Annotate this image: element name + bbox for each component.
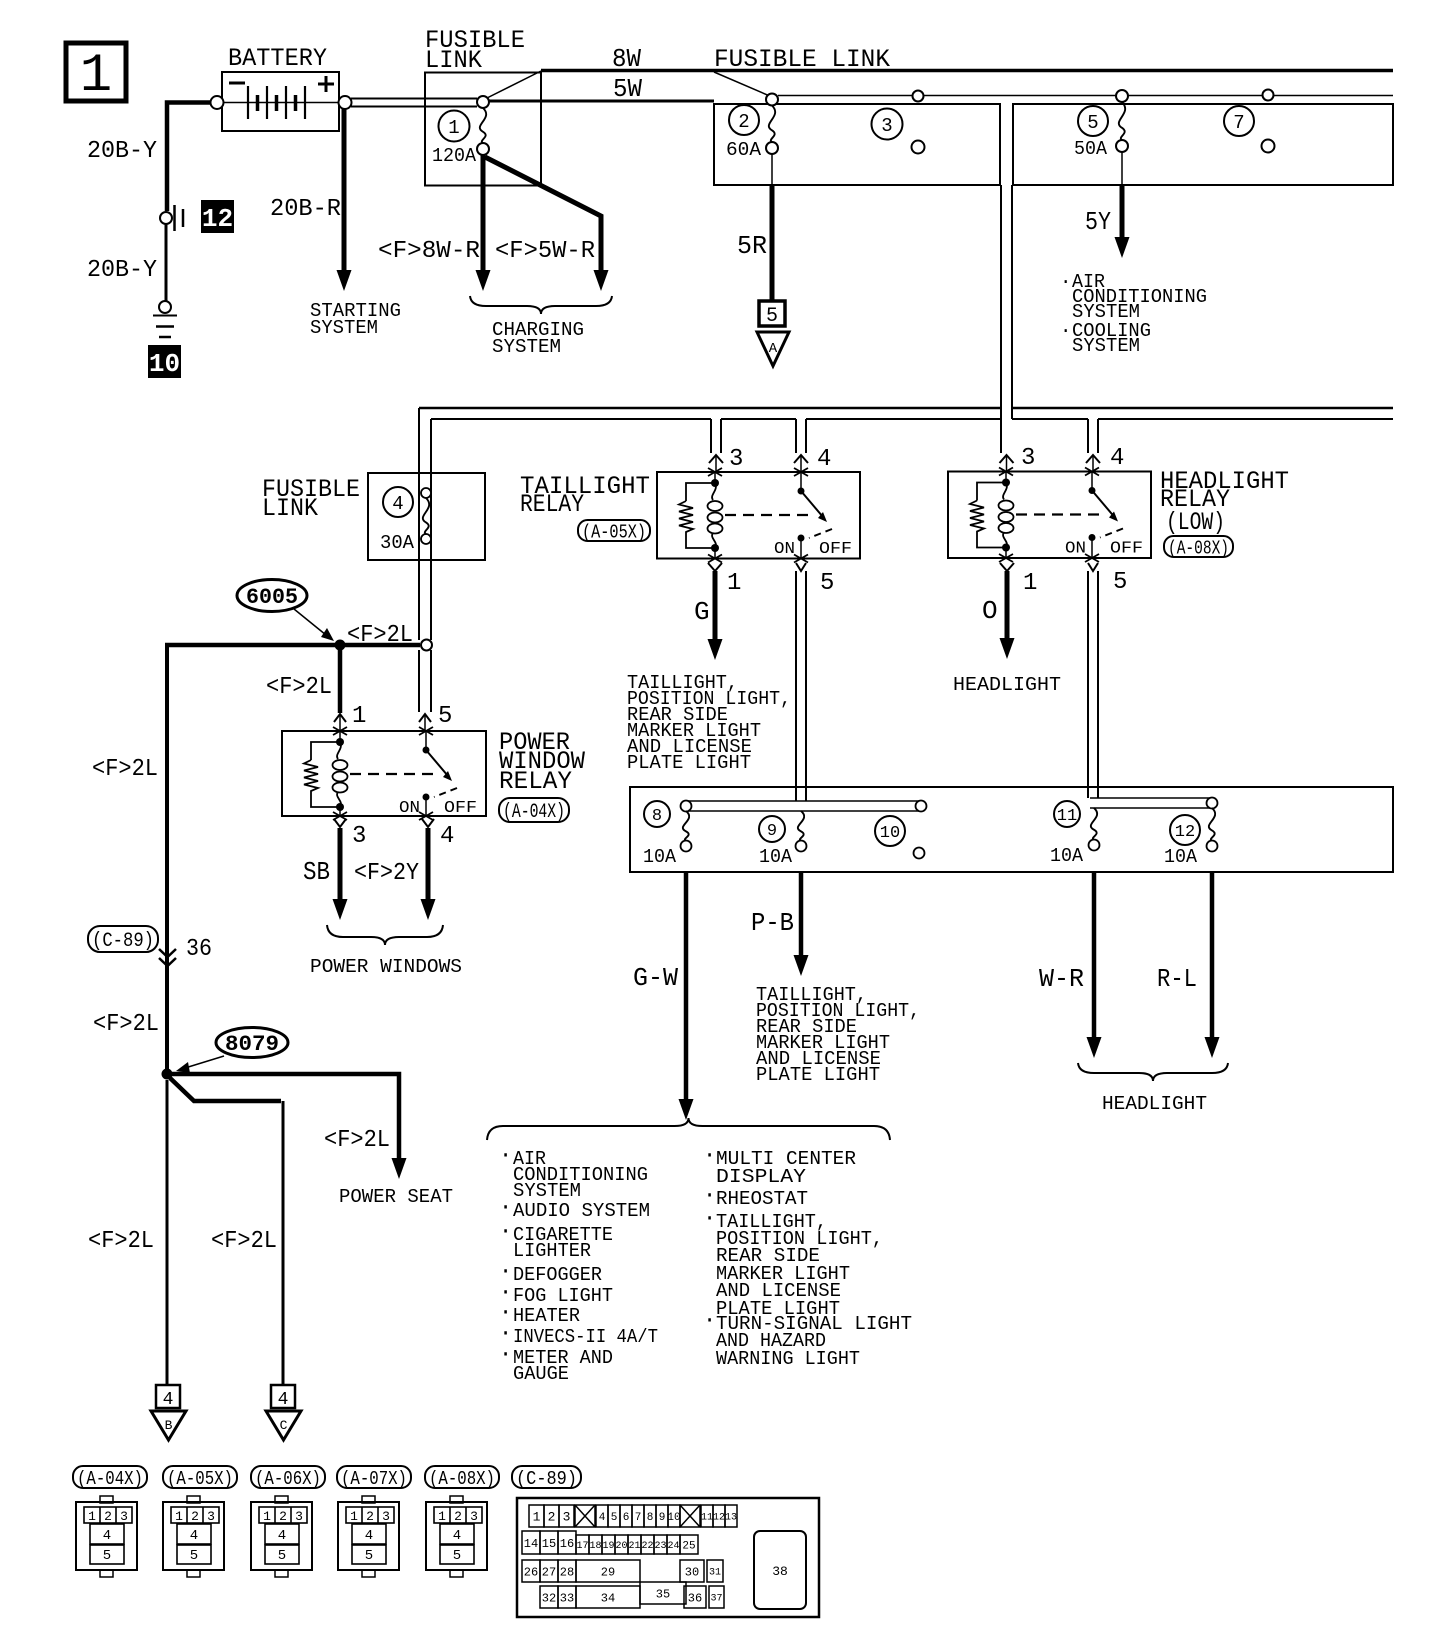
svg-text:6005: 6005 [246, 585, 298, 610]
svg-text:3: 3 [382, 1509, 390, 1524]
svg-text:1: 1 [448, 117, 459, 139]
svg-text:·: · [703, 1206, 716, 1231]
svg-text:<F>2L: <F>2L [211, 1228, 277, 1255]
svg-text:12: 12 [1175, 823, 1195, 842]
svg-text:FUSIBLE LINK: FUSIBLE LINK [714, 45, 890, 74]
svg-text:2: 2 [454, 1509, 462, 1524]
svg-text:<F>2L: <F>2L [324, 1127, 390, 1154]
svg-text:7: 7 [1233, 112, 1244, 134]
svg-text:4: 4 [453, 1528, 461, 1544]
svg-text:5: 5 [365, 1548, 373, 1564]
svg-text:37: 37 [710, 1594, 722, 1605]
svg-text:4: 4 [1110, 445, 1124, 472]
svg-text:(A-08X): (A-08X) [1168, 537, 1229, 559]
svg-text:22: 22 [641, 1541, 653, 1552]
svg-text:30: 30 [685, 1565, 699, 1579]
svg-text:5: 5 [766, 305, 778, 328]
svg-text:33: 33 [560, 1591, 574, 1605]
svg-text:P-B: P-B [751, 908, 794, 938]
svg-text:<F>2Y: <F>2Y [354, 860, 419, 887]
svg-text:4: 4 [278, 1528, 286, 1544]
svg-text:PLATE LIGHT: PLATE LIGHT [627, 752, 751, 774]
svg-text:5: 5 [438, 703, 452, 730]
svg-text:13: 13 [725, 1513, 737, 1524]
svg-text:LINK: LINK [262, 494, 318, 523]
svg-text:B: B [165, 1418, 173, 1433]
svg-text:ON: ON [774, 539, 795, 558]
svg-text:AUDIO SYSTEM: AUDIO SYSTEM [513, 1200, 650, 1222]
svg-text:POWER WINDOWS: POWER WINDOWS [310, 956, 462, 978]
svg-text:1: 1 [438, 1509, 446, 1524]
svg-text:(A-07X): (A-07X) [341, 1468, 407, 1490]
svg-text:·: · [499, 1219, 512, 1244]
svg-text:GAUGE: GAUGE [513, 1363, 569, 1385]
svg-text:29: 29 [601, 1565, 615, 1579]
svg-text:8W: 8W [612, 44, 641, 74]
svg-text:12: 12 [202, 204, 233, 234]
svg-text:SYSTEM: SYSTEM [310, 317, 378, 339]
svg-text:28: 28 [560, 1565, 574, 1579]
svg-text:25: 25 [682, 1540, 695, 1552]
svg-text:18: 18 [589, 1541, 601, 1552]
svg-text:POWER SEAT: POWER SEAT [339, 1186, 453, 1208]
svg-text:38: 38 [772, 1564, 788, 1579]
svg-text:4: 4 [392, 493, 403, 515]
svg-text:2: 2 [104, 1509, 112, 1524]
svg-text:LINK: LINK [425, 46, 482, 75]
svg-text:6: 6 [623, 1512, 630, 1524]
svg-text:50A: 50A [1074, 138, 1108, 160]
svg-text:O: O [982, 596, 998, 626]
svg-text:3: 3 [120, 1509, 128, 1524]
svg-text:20B-R: 20B-R [270, 196, 341, 223]
svg-text:5W: 5W [613, 74, 642, 104]
svg-text:26: 26 [524, 1565, 538, 1579]
svg-text:20B-Y: 20B-Y [87, 138, 157, 165]
svg-text:8: 8 [647, 1512, 654, 1524]
svg-text:10: 10 [880, 824, 900, 843]
svg-text:5: 5 [1087, 112, 1098, 134]
svg-text:W-R: W-R [1039, 964, 1084, 994]
svg-text:RELAY: RELAY [499, 767, 572, 796]
svg-text:·: · [703, 1143, 716, 1168]
svg-text:SYSTEM: SYSTEM [1072, 335, 1140, 357]
svg-text:36: 36 [186, 936, 212, 963]
svg-text:(C-89): (C-89) [516, 1468, 577, 1490]
svg-text:2: 2 [279, 1509, 287, 1524]
svg-text:1: 1 [1023, 570, 1037, 597]
svg-text:<F>2L: <F>2L [92, 756, 158, 783]
svg-text:5: 5 [103, 1548, 111, 1564]
svg-text:4: 4 [817, 446, 831, 473]
svg-text:10A: 10A [1050, 845, 1084, 867]
svg-text:·: · [499, 1143, 512, 1168]
svg-text:·: · [703, 1308, 716, 1333]
svg-text:1: 1 [350, 1509, 358, 1524]
svg-text:RELAY: RELAY [520, 490, 584, 519]
svg-text:3: 3 [881, 115, 892, 137]
svg-text:(A-04X): (A-04X) [503, 801, 565, 824]
svg-text:36: 36 [688, 1591, 702, 1605]
svg-text:OFF: OFF [819, 539, 852, 558]
svg-text:·: · [1060, 320, 1071, 342]
svg-text:SYSTEM: SYSTEM [513, 1180, 581, 1202]
svg-text:RHEOSTAT: RHEOSTAT [716, 1188, 808, 1210]
svg-text:DEFOGGER: DEFOGGER [513, 1264, 602, 1286]
svg-text:60A: 60A [726, 139, 762, 161]
svg-text:3: 3 [563, 1510, 571, 1525]
svg-text:BATTERY: BATTERY [228, 44, 327, 73]
svg-text:HEADLIGHT: HEADLIGHT [1102, 1093, 1207, 1115]
svg-text:OFF: OFF [444, 798, 477, 817]
svg-text:31: 31 [709, 1568, 721, 1579]
svg-text:10: 10 [149, 349, 180, 379]
svg-text:32: 32 [542, 1591, 556, 1605]
svg-text:(A-06X): (A-06X) [255, 1468, 321, 1490]
svg-text:14: 14 [524, 1537, 538, 1551]
svg-text:<F>2L: <F>2L [93, 1011, 159, 1038]
svg-text:(A-04X): (A-04X) [77, 1468, 143, 1490]
svg-text:16: 16 [560, 1537, 574, 1551]
svg-text:10A: 10A [1164, 846, 1198, 868]
svg-text:5: 5 [278, 1548, 286, 1564]
svg-text:R-L: R-L [1157, 964, 1197, 994]
svg-text:21: 21 [628, 1541, 640, 1552]
svg-text:1: 1 [352, 703, 366, 730]
svg-text:5: 5 [453, 1548, 461, 1564]
svg-text:35: 35 [656, 1587, 670, 1601]
svg-text:OFF: OFF [1110, 539, 1143, 558]
svg-text:2: 2 [738, 111, 749, 133]
svg-text:30A: 30A [380, 532, 415, 554]
svg-text:WARNING LIGHT: WARNING LIGHT [716, 1348, 860, 1370]
svg-text:ON: ON [399, 798, 420, 817]
svg-text:9: 9 [659, 1512, 666, 1524]
svg-text:12: 12 [713, 1513, 725, 1524]
svg-text:4: 4 [103, 1528, 111, 1544]
svg-text:ON: ON [1065, 539, 1086, 558]
svg-text:7: 7 [635, 1512, 642, 1524]
svg-text:<F>2L: <F>2L [347, 622, 413, 649]
svg-text:15: 15 [542, 1537, 556, 1551]
svg-text:G-W: G-W [633, 963, 678, 993]
svg-text:DISPLAY: DISPLAY [716, 1166, 807, 1188]
svg-text:INVECS-II 4A/T: INVECS-II 4A/T [513, 1326, 658, 1348]
svg-text:3: 3 [295, 1509, 303, 1524]
svg-text:5: 5 [190, 1548, 198, 1564]
svg-text:4: 4 [278, 1390, 289, 1410]
svg-text:20: 20 [615, 1541, 627, 1552]
svg-text:3: 3 [729, 446, 743, 473]
svg-text:2: 2 [548, 1510, 556, 1525]
svg-text:SYSTEM: SYSTEM [492, 336, 561, 358]
svg-text:LIGHTER: LIGHTER [513, 1240, 591, 1262]
svg-text:PLATE LIGHT: PLATE LIGHT [756, 1064, 880, 1086]
svg-text:4: 4 [365, 1528, 373, 1544]
svg-text:C: C [280, 1418, 288, 1433]
svg-text:20B-Y: 20B-Y [87, 257, 157, 284]
svg-text:3: 3 [470, 1509, 478, 1524]
svg-text:9: 9 [767, 822, 777, 841]
svg-text:<F>2L: <F>2L [266, 674, 332, 701]
svg-text:1: 1 [727, 570, 741, 597]
svg-text:11: 11 [701, 1513, 713, 1524]
svg-text:27: 27 [542, 1565, 556, 1579]
svg-text:120A: 120A [432, 145, 477, 167]
svg-text:4: 4 [599, 1512, 606, 1524]
svg-text:<F>8W-R: <F>8W-R [378, 238, 480, 265]
svg-text:(A-05X): (A-05X) [582, 521, 646, 543]
svg-text:·: · [499, 1195, 512, 1220]
svg-text:1: 1 [88, 1509, 96, 1524]
svg-text:·: · [499, 1342, 512, 1367]
svg-text:5R: 5R [737, 231, 767, 261]
svg-text:5: 5 [611, 1512, 618, 1524]
svg-text:SB: SB [303, 857, 330, 887]
svg-text:5: 5 [1113, 569, 1127, 596]
svg-text:10: 10 [667, 1512, 680, 1524]
svg-text:8079: 8079 [225, 1032, 279, 1057]
svg-text:19: 19 [602, 1541, 614, 1552]
svg-text:1: 1 [175, 1509, 183, 1524]
svg-text:4: 4 [440, 823, 454, 850]
svg-text:3: 3 [207, 1509, 215, 1524]
svg-text:3: 3 [352, 823, 366, 850]
svg-text:(A-08X): (A-08X) [429, 1468, 495, 1490]
svg-text:HEATER: HEATER [513, 1305, 580, 1327]
svg-text:8: 8 [652, 807, 662, 826]
svg-text:17: 17 [576, 1541, 588, 1552]
svg-text:(C-89): (C-89) [92, 930, 154, 953]
svg-text:34: 34 [601, 1591, 615, 1605]
svg-text:A: A [769, 341, 778, 357]
svg-text:2: 2 [366, 1509, 374, 1524]
svg-text:1: 1 [263, 1509, 271, 1524]
svg-text:·: · [1060, 271, 1071, 293]
svg-text:4: 4 [163, 1390, 174, 1410]
svg-text:24: 24 [667, 1541, 679, 1552]
svg-text:FOG LIGHT: FOG LIGHT [513, 1285, 613, 1307]
svg-text:10A: 10A [759, 846, 793, 868]
svg-text:4: 4 [190, 1528, 198, 1544]
svg-text:10A: 10A [643, 846, 677, 868]
svg-text:G: G [694, 597, 710, 627]
svg-text:<F>2L: <F>2L [88, 1228, 154, 1255]
svg-text:·: · [703, 1183, 716, 1208]
svg-text:2: 2 [191, 1509, 199, 1524]
svg-text:(LOW): (LOW) [1166, 508, 1225, 537]
svg-text:3: 3 [1021, 445, 1035, 472]
svg-text:<F>5W-R: <F>5W-R [495, 238, 595, 265]
svg-text:HEADLIGHT: HEADLIGHT [953, 674, 1061, 696]
svg-text:5Y: 5Y [1085, 207, 1111, 237]
svg-text:5: 5 [820, 570, 834, 597]
svg-text:(A-05X): (A-05X) [167, 1468, 233, 1490]
svg-text:11: 11 [1057, 807, 1077, 826]
svg-text:23: 23 [654, 1541, 666, 1552]
svg-text:1: 1 [533, 1510, 541, 1525]
svg-text:1: 1 [80, 46, 112, 107]
